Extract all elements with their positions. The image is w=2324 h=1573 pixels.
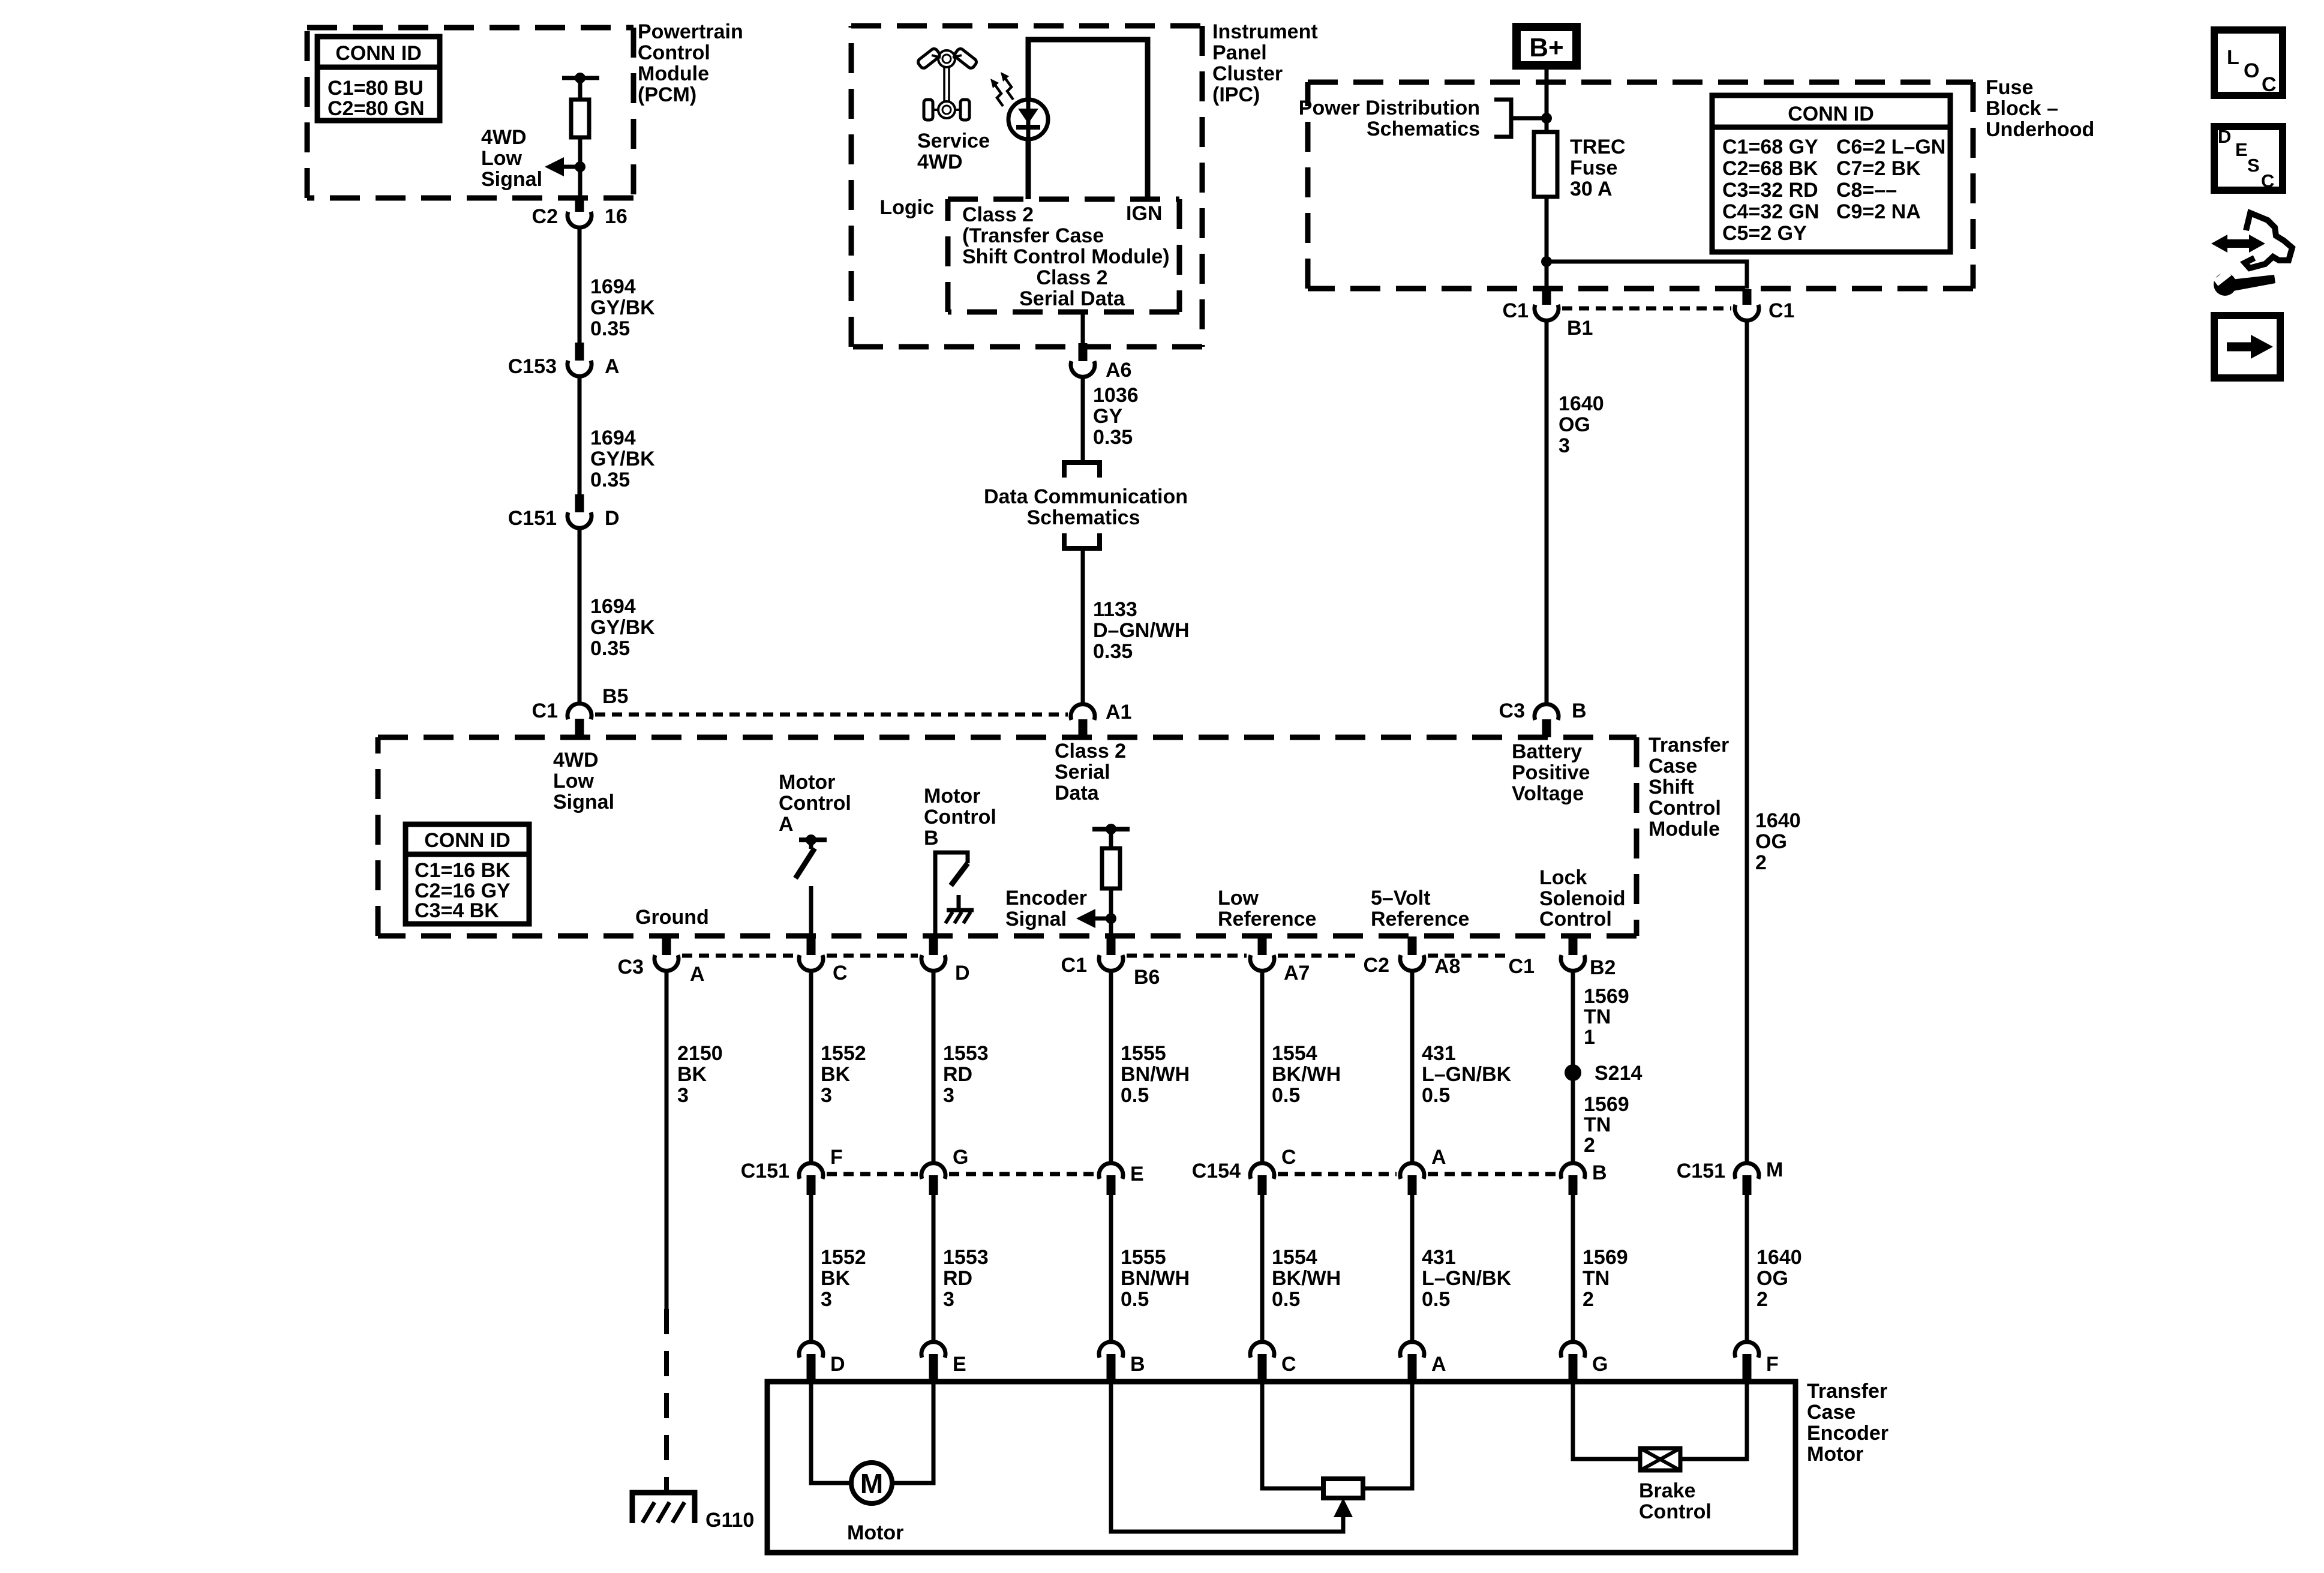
svg-text:(PCM): (PCM) xyxy=(638,83,696,106)
connector C1 (right) xyxy=(1743,289,1752,305)
wire 1555 xyxy=(1109,1195,1113,1341)
conn C1 pin C (motor control A) xyxy=(799,936,848,984)
svg-text:16: 16 xyxy=(605,205,627,228)
svg-text:Reference: Reference xyxy=(1218,908,1316,930)
svg-text:C5=2 GY: C5=2 GY xyxy=(1722,222,1807,245)
rear circle xyxy=(938,101,955,118)
wire 1694 GY/BK (C153 to C151) xyxy=(578,377,582,494)
wire xyxy=(578,78,582,100)
connector pin E (encoder motor) xyxy=(921,1342,966,1381)
connector C154 pin C xyxy=(1192,1146,1296,1195)
svg-text:Signal: Signal xyxy=(481,168,542,191)
front axle wheels (angled) xyxy=(917,47,941,70)
svg-text:CONN ID: CONN ID xyxy=(1788,103,1874,125)
svg-text:Motor: Motor xyxy=(779,771,835,794)
LED diode triangle xyxy=(1018,109,1038,124)
4WD Low Signal arrow xyxy=(563,165,580,169)
svg-text:1552: 1552 xyxy=(821,1042,866,1065)
node (signal tap) xyxy=(575,161,585,172)
svg-text:Powertrain: Powertrain xyxy=(638,20,743,43)
wire E to motor xyxy=(891,1382,933,1483)
svg-text:Motor: Motor xyxy=(924,785,980,807)
svg-text:C3: C3 xyxy=(618,956,644,978)
svg-text:C: C xyxy=(2261,170,2274,191)
svg-text:Module: Module xyxy=(638,62,709,85)
wire 1036 GY xyxy=(1081,377,1085,463)
svg-text:C154: C154 xyxy=(1192,1160,1241,1182)
wire through LED xyxy=(1026,101,1031,138)
encoder signal arrow xyxy=(1095,917,1111,921)
svg-text:Control: Control xyxy=(924,806,996,828)
svg-text:Transfer: Transfer xyxy=(1649,734,1729,757)
svg-text:B6: B6 xyxy=(1134,966,1160,989)
svg-text:C1=68 GY: C1=68 GY xyxy=(1722,136,1818,158)
svg-text:Positive: Positive xyxy=(1512,761,1590,784)
wire 431 xyxy=(1410,972,1415,1162)
svg-text:Schematics: Schematics xyxy=(1367,118,1480,140)
svg-text:Control: Control xyxy=(1639,1500,1712,1523)
svg-text:A8: A8 xyxy=(1434,955,1460,978)
wire 1694 GY/BK (C151 to TCSCM) xyxy=(578,529,582,704)
svg-text:Control: Control xyxy=(1539,908,1612,930)
svg-text:C: C xyxy=(1281,1353,1296,1376)
svg-text:C151: C151 xyxy=(741,1160,789,1182)
front axle shafts xyxy=(932,55,941,58)
svg-text:5–Volt: 5–Volt xyxy=(1371,887,1431,909)
reference bracket xyxy=(1494,100,1511,137)
CONN ID table (Fuse Block) xyxy=(1712,95,1950,252)
connector C151 pin D xyxy=(575,494,584,512)
svg-text:4WD: 4WD xyxy=(553,749,599,772)
wire 1640 OG 2 (right, long) xyxy=(1745,321,1749,1161)
svg-text:M: M xyxy=(860,1468,883,1499)
svg-text:Low: Low xyxy=(1218,887,1259,909)
4WD Low Signal label xyxy=(481,126,542,191)
Encoder Signal label xyxy=(1005,887,1087,930)
wire 1552 xyxy=(809,1195,813,1341)
splice S214 xyxy=(1565,1064,1581,1081)
svg-text:B: B xyxy=(924,827,939,849)
svg-text:BK: BK xyxy=(821,1063,851,1086)
conn C2 pin A8 (5-volt reference) xyxy=(1364,936,1461,978)
encoder motor label xyxy=(1807,1380,1888,1466)
svg-text:Block –: Block – xyxy=(1986,97,2058,120)
Service 4WD telltale icon (drivetrain) xyxy=(917,47,978,120)
svg-text:C: C xyxy=(833,962,848,984)
brake control element xyxy=(1640,1448,1680,1470)
Motor Control A label xyxy=(779,771,851,836)
svg-text:2: 2 xyxy=(1756,1288,1768,1311)
svg-text:Service: Service xyxy=(917,130,990,152)
C1 harness dashed line B5 to A1 xyxy=(595,713,1068,717)
svg-text:B: B xyxy=(1130,1353,1145,1376)
svg-text:0.35: 0.35 xyxy=(1093,426,1133,449)
svg-text:3: 3 xyxy=(821,1288,832,1311)
next-page arrow icon xyxy=(2214,316,2280,378)
svg-text:M: M xyxy=(1766,1158,1783,1181)
resistor (PCM pull-up) xyxy=(571,100,589,137)
svg-text:Case: Case xyxy=(1807,1401,1855,1424)
svg-text:Motor: Motor xyxy=(1807,1443,1863,1466)
svg-text:Fuse: Fuse xyxy=(1570,157,1617,179)
Fuse Block dashed box xyxy=(1308,82,1973,289)
connector A1 (module top): dome xyxy=(1071,704,1095,720)
internal ground (Motor Control B) xyxy=(945,895,974,923)
svg-text:4WD: 4WD xyxy=(481,126,527,149)
svg-text:A7: A7 xyxy=(1284,962,1310,984)
connector C2 pin 16: stub xyxy=(575,199,584,212)
conn C3 pin A (ground) xyxy=(618,936,705,986)
svg-text:S: S xyxy=(2247,155,2260,176)
wire 1555 xyxy=(1109,972,1113,1162)
svg-text:1640: 1640 xyxy=(1756,1246,1802,1269)
svg-text:C: C xyxy=(1281,1146,1296,1169)
svg-text:L–GN/BK: L–GN/BK xyxy=(1422,1063,1512,1086)
svg-text:B5: B5 xyxy=(602,685,628,708)
svg-text:CONN ID: CONN ID xyxy=(335,42,422,65)
svg-text:2: 2 xyxy=(1583,1288,1594,1311)
svg-text:D: D xyxy=(2218,126,2231,147)
svg-text:BK/WH: BK/WH xyxy=(1272,1267,1341,1290)
wire 1569 xyxy=(1571,1195,1575,1341)
svg-text:Class 2: Class 2 xyxy=(1055,740,1126,763)
svg-text:Control: Control xyxy=(779,792,851,815)
wiper arrow xyxy=(1334,1498,1353,1517)
connector pin B (encoder motor) xyxy=(1099,1342,1145,1381)
motor M xyxy=(851,1463,892,1503)
connector pin D (encoder motor) xyxy=(799,1342,845,1381)
svg-text:1694: 1694 xyxy=(590,275,636,298)
Brake Control label xyxy=(1639,1479,1712,1523)
wire fuse to C1 xyxy=(1545,197,1549,289)
svg-text:C7=2 BK: C7=2 BK xyxy=(1836,157,1921,180)
svg-text:1569: 1569 xyxy=(1584,985,1629,1008)
svg-text:BN/WH: BN/WH xyxy=(1121,1063,1190,1086)
wrench / adjust icon xyxy=(2211,213,2292,296)
svg-text:TN: TN xyxy=(1584,1005,1611,1028)
svg-text:OG: OG xyxy=(1559,413,1590,436)
svg-text:Schematics: Schematics xyxy=(1027,506,1140,529)
svg-text:Reference: Reference xyxy=(1371,908,1469,930)
svg-text:L: L xyxy=(2227,46,2239,69)
switch Motor Control A xyxy=(795,834,827,936)
svg-text:BN/WH: BN/WH xyxy=(1121,1267,1190,1290)
svg-text:E: E xyxy=(2235,139,2248,160)
svg-text:Control: Control xyxy=(1649,797,1721,819)
connector A1: stub xyxy=(1079,719,1088,737)
svg-text:1554: 1554 xyxy=(1272,1246,1317,1269)
off-page break (bottom staple) xyxy=(1064,533,1100,548)
wire from IPC xyxy=(1081,312,1085,343)
svg-text:(IPC): (IPC) xyxy=(1212,83,1260,106)
svg-text:F: F xyxy=(830,1146,843,1169)
connector C1 pin B5: stub into module xyxy=(575,719,584,737)
svg-text:S214: S214 xyxy=(1595,1062,1642,1085)
wire xyxy=(578,137,582,198)
prop shaft (double line) xyxy=(943,67,945,102)
svg-text:E: E xyxy=(1130,1163,1144,1185)
svg-text:4WD: 4WD xyxy=(917,151,963,173)
PCM label xyxy=(638,20,743,106)
svg-text:D: D xyxy=(605,507,620,530)
svg-text:TN: TN xyxy=(1584,1113,1611,1136)
svg-text:1552: 1552 xyxy=(821,1246,866,1269)
svg-text:1694: 1694 xyxy=(590,427,636,449)
svg-text:Lock: Lock xyxy=(1539,866,1587,889)
svg-text:RD: RD xyxy=(943,1063,972,1086)
svg-text:1569: 1569 xyxy=(1584,1093,1629,1116)
rear axle shafts xyxy=(933,109,938,111)
svg-text:C2=68 BK: C2=68 BK xyxy=(1722,157,1818,180)
svg-text:RD: RD xyxy=(943,1267,972,1290)
connector C1 pin B1 (left) xyxy=(1542,289,1551,305)
svg-text:G: G xyxy=(1592,1353,1608,1376)
svg-text:2: 2 xyxy=(1755,851,1767,874)
LOC icon xyxy=(2214,30,2283,96)
wire 1554 xyxy=(1260,972,1265,1162)
svg-text:Panel: Panel xyxy=(1212,41,1267,64)
wire 1553 xyxy=(932,972,936,1162)
svg-text:GY/BK: GY/BK xyxy=(590,296,655,319)
svg-text:Motor: Motor xyxy=(847,1521,903,1544)
connector C1 pin B5 (module top): dome xyxy=(568,704,591,719)
node at B+ feed xyxy=(1541,113,1552,124)
wire B+ down xyxy=(1545,70,1549,132)
switch Motor Control B xyxy=(935,852,968,936)
TREC Fuse 30 A xyxy=(1534,132,1557,197)
node branch xyxy=(1541,256,1552,267)
wire A to position sensor xyxy=(1362,1382,1412,1488)
svg-text:2150: 2150 xyxy=(677,1042,723,1065)
svg-text:BK/WH: BK/WH xyxy=(1272,1063,1341,1086)
svg-text:30 A: 30 A xyxy=(1570,178,1613,200)
svg-text:OG: OG xyxy=(1756,1267,1788,1290)
svg-text:F: F xyxy=(1766,1353,1779,1376)
svg-text:C3=4 BK: C3=4 BK xyxy=(415,899,499,922)
wire 2150 BK 3 (ground, to G110) xyxy=(665,972,669,1309)
svg-text:C1: C1 xyxy=(1509,955,1535,978)
wire D to motor xyxy=(811,1382,852,1483)
wire 1569 TN 2 (below splice) xyxy=(1584,1093,1629,1157)
svg-text:0.35: 0.35 xyxy=(590,637,630,660)
connector C3 pin B (module top): dome xyxy=(1535,704,1559,720)
svg-text:0.35: 0.35 xyxy=(590,317,630,340)
svg-text:Logic: Logic xyxy=(879,196,934,219)
wire C to position sensor xyxy=(1262,1382,1325,1488)
svg-text:C1: C1 xyxy=(1503,299,1529,322)
svg-text:A1: A1 xyxy=(1106,701,1131,724)
svg-text:C4=32 GN: C4=32 GN xyxy=(1722,200,1819,223)
svg-text:CONN ID: CONN ID xyxy=(424,829,511,852)
Service 4WD label xyxy=(917,130,990,173)
IPC label xyxy=(1212,20,1318,106)
svg-text:0.5: 0.5 xyxy=(1121,1288,1149,1311)
svg-text:D: D xyxy=(955,962,970,984)
wire 1569 TN 1 xyxy=(1571,972,1575,1162)
svg-text:C1=80 BU: C1=80 BU xyxy=(328,77,424,100)
connector C153 pin A xyxy=(575,343,584,361)
transfer circle top xyxy=(938,50,955,67)
ground G110 xyxy=(632,1493,695,1523)
connector C151/C154 pin E xyxy=(1099,1163,1144,1195)
wire F to brake xyxy=(1679,1382,1747,1459)
svg-text:C2: C2 xyxy=(1364,954,1389,977)
svg-text:0.5: 0.5 xyxy=(1272,1288,1300,1311)
svg-text:C1: C1 xyxy=(1061,954,1087,977)
svg-text:0.5: 0.5 xyxy=(1121,1084,1149,1107)
svg-text:3: 3 xyxy=(943,1084,954,1107)
svg-text:0.35: 0.35 xyxy=(1093,640,1133,663)
svg-text:Shift Control Module): Shift Control Module) xyxy=(962,245,1170,268)
svg-text:C151: C151 xyxy=(508,507,557,530)
svg-text:Serial Data: Serial Data xyxy=(1019,287,1125,310)
svg-text:BK: BK xyxy=(821,1267,851,1290)
svg-text:Low: Low xyxy=(481,147,523,170)
svg-text:C6=2 L–GN: C6=2 L–GN xyxy=(1836,136,1945,158)
svg-text:Data Communication: Data Communication xyxy=(984,485,1188,508)
PCM module dashed box xyxy=(307,28,633,198)
svg-text:1640: 1640 xyxy=(1559,392,1604,415)
wire to encoder pin xyxy=(1109,888,1113,936)
svg-text:3: 3 xyxy=(677,1084,689,1107)
svg-text:1: 1 xyxy=(1584,1026,1595,1049)
connector A6 xyxy=(1079,343,1088,361)
wire 1694 GY/BK (PCM to C153) xyxy=(578,228,582,343)
svg-text:431: 431 xyxy=(1422,1246,1456,1269)
wire 1553 xyxy=(932,1195,936,1341)
svg-text:Shift: Shift xyxy=(1649,776,1694,798)
svg-text:Transfer: Transfer xyxy=(1807,1380,1887,1403)
svg-text:Brake: Brake xyxy=(1639,1479,1696,1502)
connector pin C (encoder motor) xyxy=(1250,1342,1296,1381)
svg-text:3: 3 xyxy=(1559,434,1570,457)
svg-text:1554: 1554 xyxy=(1272,1042,1317,1065)
svg-text:Module: Module xyxy=(1649,818,1720,840)
svg-text:1640: 1640 xyxy=(1755,809,1801,832)
svg-text:C1: C1 xyxy=(1768,299,1794,322)
svg-text:A: A xyxy=(1431,1353,1446,1376)
svg-text:GY/BK: GY/BK xyxy=(590,448,655,470)
node (encoder signal tap) xyxy=(1106,913,1116,924)
svg-text:C3=32 RD: C3=32 RD xyxy=(1722,179,1818,202)
svg-text:B+: B+ xyxy=(1529,33,1563,62)
IPC dashed box xyxy=(851,26,1202,347)
connector pin G (encoder motor) xyxy=(1561,1342,1608,1381)
conn C1 pin D (motor control B) xyxy=(921,936,970,984)
svg-text:1553: 1553 xyxy=(943,1246,989,1269)
svg-text:Control: Control xyxy=(638,41,710,64)
conn C1 pin A7 (low reference) xyxy=(1250,936,1310,984)
internal pull-up terminal bar xyxy=(562,76,599,80)
svg-text:GY: GY xyxy=(1093,405,1122,428)
rear wheels xyxy=(924,100,933,120)
conn C1 pin B2 (lock solenoid) xyxy=(1509,936,1616,979)
svg-text:1036: 1036 xyxy=(1093,384,1139,407)
connector pin F (encoder motor) xyxy=(1735,1342,1779,1381)
svg-text:C153: C153 xyxy=(508,355,557,378)
connector pin A (encoder motor) xyxy=(1400,1342,1446,1381)
encoder pull-up resistor xyxy=(1102,848,1120,888)
pin function labels (top row) xyxy=(553,740,1590,813)
svg-text:Class 2: Class 2 xyxy=(1036,266,1107,289)
connector C151/C154 pin G xyxy=(921,1146,968,1195)
conn C1 pin B6 (encoder signal) xyxy=(1061,936,1160,989)
svg-text:Ground: Ground xyxy=(635,906,709,929)
svg-text:O: O xyxy=(2244,59,2259,82)
svg-text:Underhood: Underhood xyxy=(1986,118,2094,141)
svg-text:Class 2: Class 2 xyxy=(962,203,1034,226)
svg-text:B2: B2 xyxy=(1590,956,1616,979)
svg-text:1555: 1555 xyxy=(1121,1246,1166,1269)
CONN ID table (TCSCM) xyxy=(406,824,529,924)
indicator LED circle xyxy=(1008,100,1048,139)
svg-text:2: 2 xyxy=(1584,1134,1595,1157)
svg-text:3: 3 xyxy=(821,1084,832,1107)
svg-text:C8=––: C8=–– xyxy=(1836,179,1897,202)
connector C2 pin 16: cup xyxy=(568,212,591,227)
DESC icon xyxy=(2214,126,2283,191)
svg-text:TREC: TREC xyxy=(1570,136,1626,158)
harness dashed line (C151 row) xyxy=(827,1172,918,1176)
svg-text:Cluster: Cluster xyxy=(1212,62,1283,85)
connector C151 pin M xyxy=(1677,1158,1783,1195)
svg-text:C9=2 NA: C9=2 NA xyxy=(1836,200,1921,223)
svg-text:431: 431 xyxy=(1422,1042,1456,1065)
svg-text:A: A xyxy=(779,813,794,836)
svg-text:E: E xyxy=(953,1353,966,1376)
wire 1133 D-GN/WH xyxy=(1081,548,1085,704)
svg-text:D–GN/WH: D–GN/WH xyxy=(1093,619,1190,642)
wire 1640 OG 3 (left) xyxy=(1545,321,1549,704)
CONN ID table (PCM) xyxy=(317,37,440,121)
TCSCM label xyxy=(1649,734,1729,840)
svg-text:B: B xyxy=(1592,1161,1607,1184)
wire 431 xyxy=(1410,1195,1415,1341)
svg-text:C3: C3 xyxy=(1499,700,1525,722)
svg-text:BK: BK xyxy=(677,1063,707,1086)
svg-text:Fuse: Fuse xyxy=(1986,76,2033,99)
svg-text:Data: Data xyxy=(1055,782,1100,804)
svg-text:0.35: 0.35 xyxy=(590,469,630,491)
svg-text:1569: 1569 xyxy=(1583,1246,1628,1269)
connector C151/C154 pin A xyxy=(1400,1146,1446,1195)
svg-text:A: A xyxy=(1431,1146,1446,1169)
svg-text:D: D xyxy=(830,1353,845,1376)
position sensor resistor xyxy=(1323,1479,1363,1498)
connector C151/C154 pin B xyxy=(1561,1161,1607,1195)
LED emission arrows xyxy=(990,72,1013,106)
svg-text:B: B xyxy=(1572,700,1587,722)
svg-text:OG: OG xyxy=(1755,830,1787,853)
svg-text:Solenoid: Solenoid xyxy=(1539,887,1626,910)
inner dashed box (Class 2 logic) xyxy=(948,199,1179,312)
svg-text:1555: 1555 xyxy=(1121,1042,1166,1065)
svg-text:Serial: Serial xyxy=(1055,761,1110,784)
svg-text:0.5: 0.5 xyxy=(1422,1288,1450,1311)
Motor Control B label xyxy=(924,785,996,849)
svg-text:(Transfer Case: (Transfer Case xyxy=(962,224,1104,247)
wire 1640 xyxy=(1745,1195,1749,1341)
svg-text:C2=80 GN: C2=80 GN xyxy=(328,97,425,120)
svg-text:GY/BK: GY/BK xyxy=(590,616,655,639)
node at terminal bar xyxy=(575,73,585,83)
svg-text:C: C xyxy=(2262,73,2277,96)
encoder motor box xyxy=(767,1382,1795,1553)
svg-text:A: A xyxy=(690,963,705,986)
Power Distribution Schematics reference xyxy=(1299,97,1480,140)
off-page break (top staple) xyxy=(1064,463,1100,478)
svg-text:Instrument: Instrument xyxy=(1212,20,1318,43)
